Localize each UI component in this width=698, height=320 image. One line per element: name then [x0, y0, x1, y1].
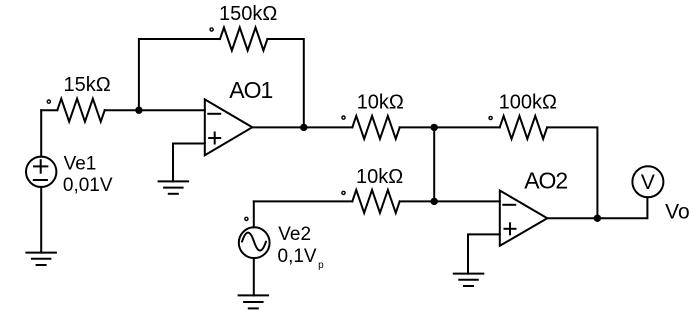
svg-text:100kΩ: 100kΩ	[499, 92, 557, 114]
svg-text:10kΩ: 10kΩ	[357, 91, 404, 113]
svg-text:15kΩ: 15kΩ	[64, 74, 111, 96]
svg-text:AO1: AO1	[229, 77, 272, 103]
svg-text:AO2: AO2	[524, 168, 567, 194]
svg-text:V: V	[641, 171, 655, 194]
svg-text:0,01V: 0,01V	[63, 175, 113, 196]
svg-text:Vo: Vo	[665, 200, 690, 223]
svg-text:10kΩ: 10kΩ	[356, 166, 403, 188]
svg-text:150kΩ: 150kΩ	[219, 3, 277, 25]
svg-text:Ve1: Ve1	[64, 154, 97, 175]
svg-text:Ve2: Ve2	[278, 224, 311, 245]
svg-text:0,1Vp: 0,1Vp	[278, 246, 325, 271]
